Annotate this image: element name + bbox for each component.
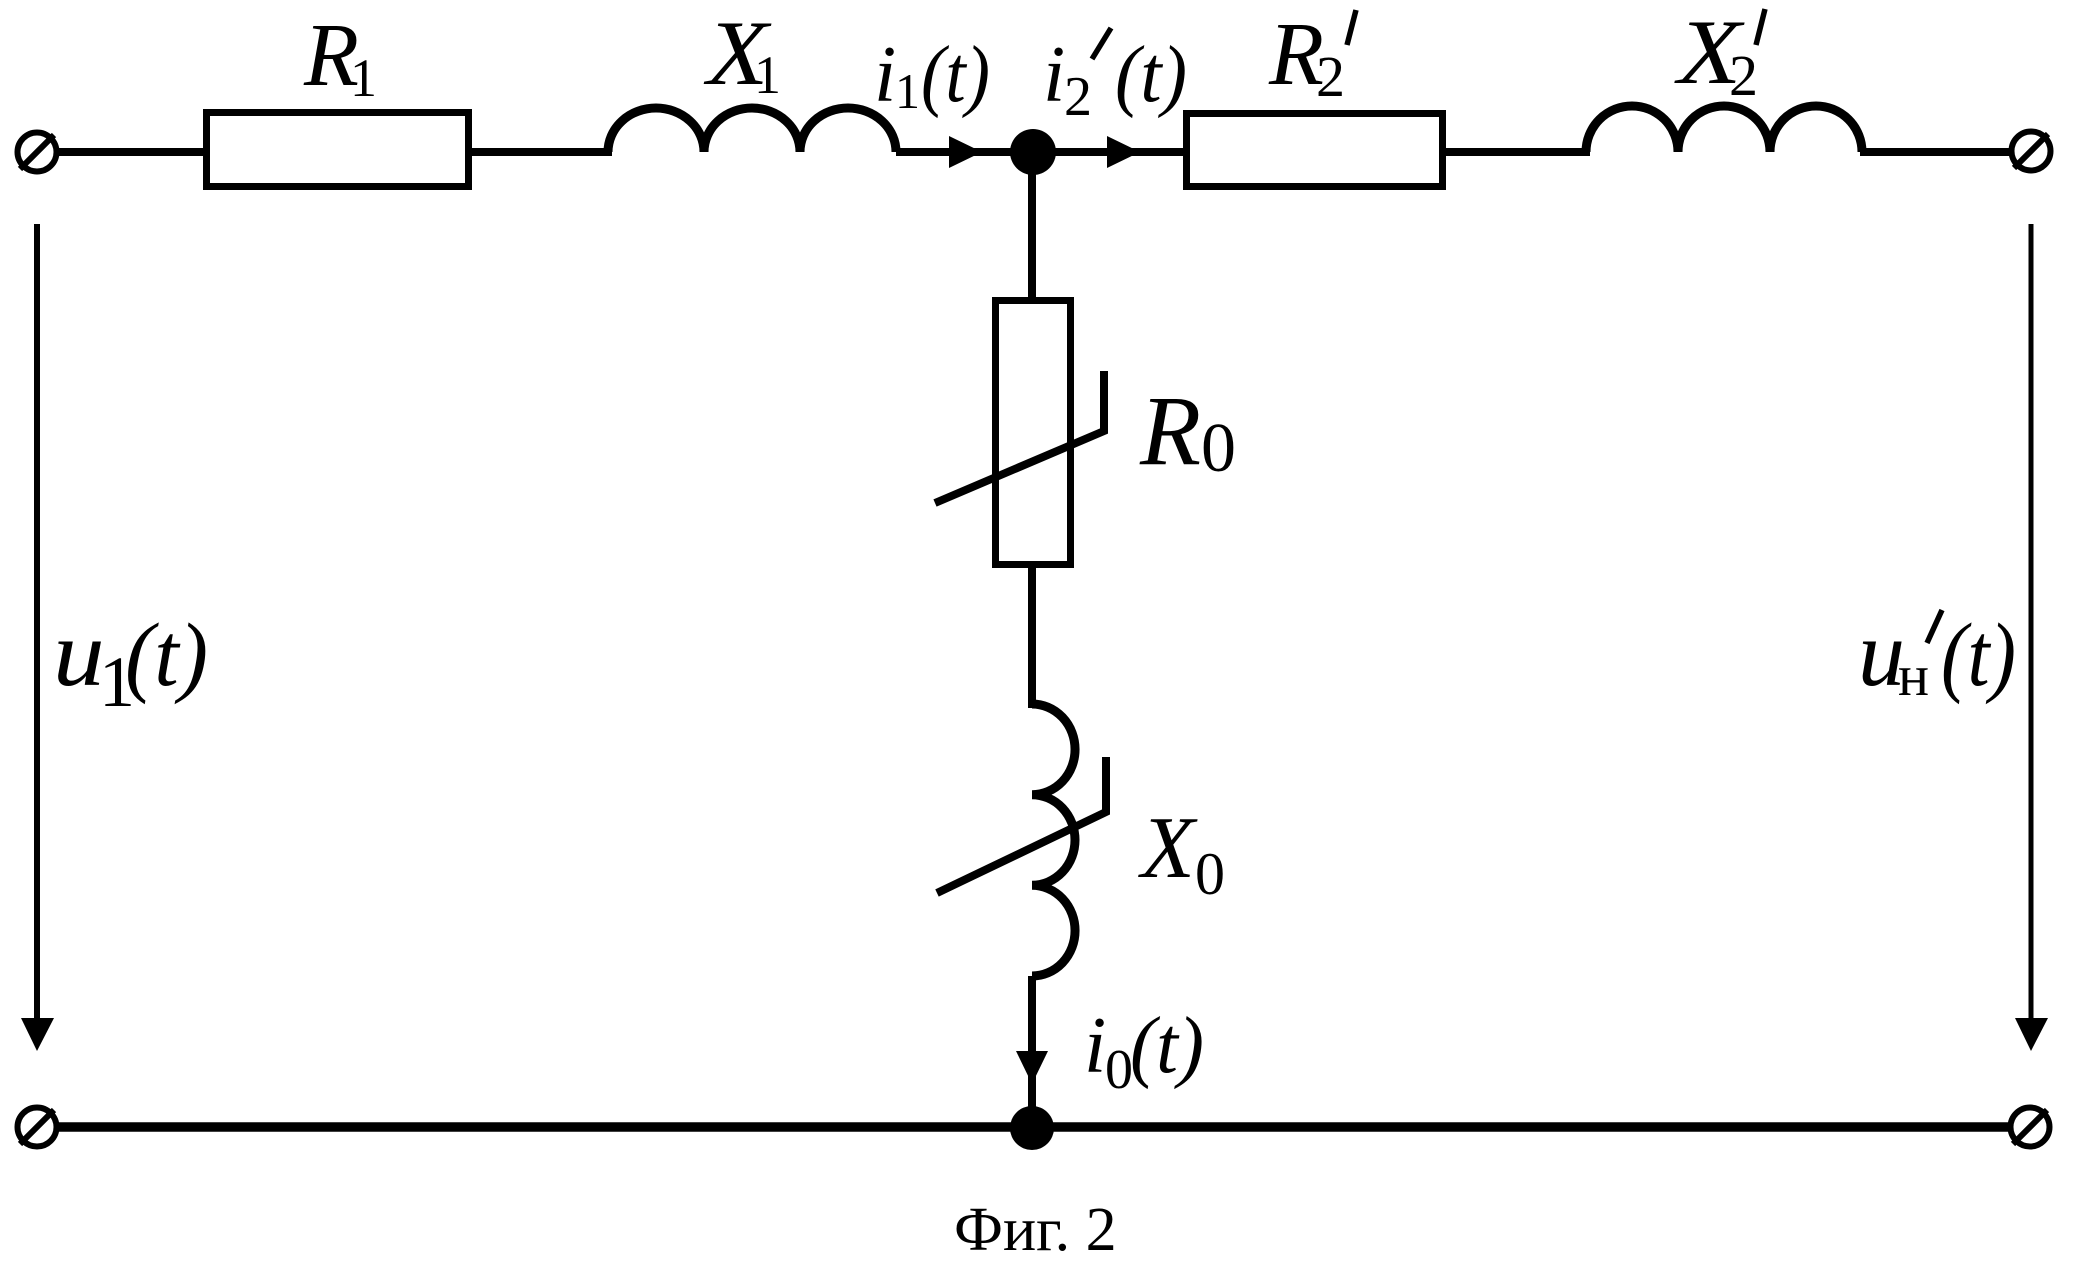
svg-text:1: 1 xyxy=(754,45,781,105)
svg-text:(t): (t) xyxy=(125,606,208,705)
svg-text:1: 1 xyxy=(895,63,920,119)
arrow i2'(t) xyxy=(1107,136,1140,168)
label X0 xyxy=(1138,800,1225,907)
resistor R2' xyxy=(1187,114,1443,187)
svg-text:i: i xyxy=(1084,1002,1106,1090)
wire X2' to top-right terminal xyxy=(1860,148,2012,156)
svg-text:0: 0 xyxy=(1201,410,1236,487)
svg-text:Фиг. 2: Фиг. 2 xyxy=(954,1196,1117,1262)
label R0 xyxy=(1139,375,1236,487)
svg-text:2: 2 xyxy=(1064,66,1092,128)
svg-text:0: 0 xyxy=(1195,841,1225,907)
svg-text:i: i xyxy=(1043,31,1065,119)
label R1 xyxy=(303,6,377,108)
svg-text:1: 1 xyxy=(350,48,377,108)
inductor X0 (variable) xyxy=(1032,704,1075,976)
svg-text:(t): (t) xyxy=(1130,1002,1204,1090)
label uH'(t) xyxy=(1858,602,2016,708)
wire node A to R2' xyxy=(1054,148,1186,156)
svg-text:i: i xyxy=(874,31,896,119)
svg-text:u: u xyxy=(53,602,105,706)
bottom wire xyxy=(56,1122,2012,1132)
resistor R0 (variable) xyxy=(996,301,1071,565)
label R2' xyxy=(1268,5,1356,109)
svg-text:(t): (t) xyxy=(1115,31,1187,119)
wire X0 to node B xyxy=(1028,976,1036,1128)
svg-text:н: н xyxy=(1898,643,1929,708)
inductor X1 xyxy=(608,108,896,152)
wire X1 to node A xyxy=(896,148,1014,156)
label X2' xyxy=(1673,2,1765,108)
wire R1 to X1 xyxy=(472,148,612,156)
wire R0 to X0 xyxy=(1028,564,1036,708)
label i2'(t) xyxy=(1043,28,1187,128)
X0 adjustment stroke xyxy=(937,757,1106,893)
inductor X2' xyxy=(1586,106,1862,152)
label X1 xyxy=(703,2,781,105)
label i1(t) xyxy=(874,31,990,119)
terminal top-right xyxy=(2012,132,2051,171)
terminal bottom-left xyxy=(18,1108,57,1147)
label i0(t) xyxy=(1084,1002,1204,1101)
R0 adjustment stroke xyxy=(935,371,1104,503)
voltage arrow u1(t) left side xyxy=(21,224,54,1051)
voltage arrow uH'(t) right side xyxy=(2015,224,2048,1051)
wire top-left segment xyxy=(56,148,208,156)
svg-text:R: R xyxy=(1139,375,1201,486)
terminal bottom-right xyxy=(2011,1108,2050,1147)
svg-text:2: 2 xyxy=(1729,43,1758,108)
svg-text:X: X xyxy=(1138,800,1198,897)
node B junction dot xyxy=(1010,1106,1054,1150)
arrow i0(t) xyxy=(1016,1051,1048,1084)
node A junction dot xyxy=(1010,129,1056,175)
wire node A to R0 xyxy=(1028,152,1036,300)
terminal top-left xyxy=(18,133,57,172)
svg-text:(t): (t) xyxy=(1941,606,2016,705)
svg-text:(t): (t) xyxy=(921,31,990,119)
arrow i1(t) xyxy=(949,136,982,168)
label u1(t) xyxy=(53,602,208,722)
svg-text:0: 0 xyxy=(1105,1039,1133,1101)
svg-text:2: 2 xyxy=(1316,44,1345,109)
wire R2' to X2' xyxy=(1443,148,1590,156)
resistor R1 xyxy=(207,113,469,187)
